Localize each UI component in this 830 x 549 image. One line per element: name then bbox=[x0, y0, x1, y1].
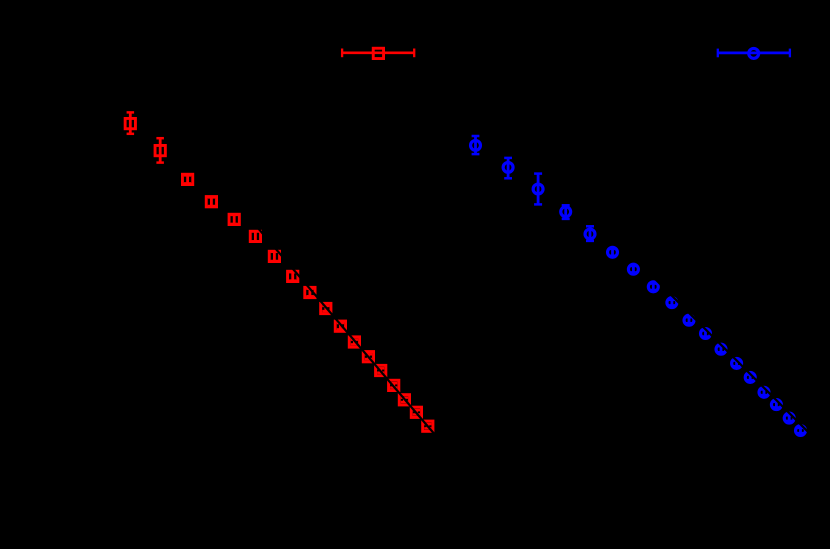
blue point 9 error bar bbox=[668, 299, 675, 307]
red point 7 square marker bbox=[269, 251, 279, 261]
red point 13 square marker bbox=[363, 352, 373, 362]
red point 17 error bar bbox=[413, 409, 420, 415]
blue point 15 error bar bbox=[761, 389, 768, 397]
red point 12 square marker bbox=[349, 337, 359, 347]
blue point 9 circle marker bbox=[667, 298, 677, 308]
blue series legend: circle marker bbox=[749, 48, 759, 58]
red point 2 error bar bbox=[156, 138, 164, 162]
blue point 8 circle marker bbox=[648, 282, 658, 292]
red point 12 error bar bbox=[351, 339, 358, 346]
black fit line over blue series bbox=[655, 279, 812, 436]
red point 5 square marker bbox=[229, 214, 239, 224]
blue point 15 circle marker bbox=[759, 387, 769, 397]
red point 1 square marker bbox=[125, 118, 135, 128]
red point 17 square marker bbox=[411, 407, 421, 417]
red point 18 square marker bbox=[423, 421, 433, 431]
red point 6 square marker bbox=[250, 231, 260, 241]
red point 9 square marker bbox=[305, 287, 315, 297]
blue point 5 error bar bbox=[586, 226, 594, 241]
blue point 13 circle marker bbox=[732, 358, 742, 368]
red point 1 error bar bbox=[127, 112, 135, 133]
blue point 3 error bar bbox=[534, 174, 542, 205]
red point 14 square marker bbox=[376, 365, 386, 375]
blue point 17 error bar bbox=[786, 414, 793, 422]
blue point 6 circle marker bbox=[608, 247, 618, 257]
blue point 18 circle marker bbox=[796, 426, 806, 436]
black fit line over red series bbox=[247, 215, 436, 436]
blue point 1 error bar bbox=[472, 136, 480, 154]
red point 15 error bar bbox=[390, 382, 397, 388]
red point 2 square marker bbox=[155, 145, 165, 155]
red point 3 error bar bbox=[184, 174, 191, 184]
red point 4 error bar bbox=[208, 196, 215, 207]
blue point 16 error bar bbox=[773, 401, 780, 409]
red point 8 error bar bbox=[289, 271, 296, 281]
blue point 10 error bar bbox=[686, 316, 693, 324]
red point 11 error bar bbox=[337, 322, 344, 330]
red point 10 square marker bbox=[321, 303, 331, 313]
blue point 17 circle marker bbox=[784, 413, 794, 423]
red point 4 square marker bbox=[206, 197, 216, 207]
red point 6 error bar bbox=[252, 230, 259, 242]
red point 11 square marker bbox=[335, 321, 345, 331]
blue point 16 circle marker bbox=[771, 400, 781, 410]
red point 3 square marker bbox=[182, 174, 192, 184]
blue point 2 error bar bbox=[504, 158, 512, 178]
red point 14 error bar bbox=[377, 367, 384, 373]
red point 7 error bar bbox=[271, 251, 278, 262]
blue point 14 circle marker bbox=[745, 372, 755, 382]
red series legend: square marker bbox=[373, 48, 383, 58]
red point 10 error bar bbox=[322, 305, 329, 312]
blue point 4 circle marker bbox=[561, 207, 571, 217]
blue point 18 error bar bbox=[797, 427, 804, 434]
red point 9 error bar bbox=[306, 288, 313, 298]
blue point 1 circle marker bbox=[471, 140, 481, 150]
blue series legend: horizontal error bar bbox=[718, 49, 790, 58]
blue point 5 circle marker bbox=[585, 229, 595, 239]
blue point 12 circle marker bbox=[716, 344, 726, 354]
red point 8 square marker bbox=[288, 271, 298, 281]
red point 18 error bar bbox=[424, 423, 431, 429]
blue point 11 circle marker bbox=[701, 329, 711, 339]
red point 16 error bar bbox=[401, 397, 408, 403]
blue point 8 error bar bbox=[650, 283, 657, 291]
blue point 11 error bar bbox=[702, 330, 709, 338]
blue point 10 circle marker bbox=[684, 315, 694, 325]
red point 15 square marker bbox=[389, 380, 399, 390]
red point 5 error bar bbox=[231, 214, 238, 225]
blue point 7 error bar bbox=[630, 265, 637, 273]
red series legend: horizontal error bar bbox=[342, 49, 414, 58]
blue point 12 error bar bbox=[718, 345, 725, 353]
blue point 6 error bar bbox=[609, 248, 616, 257]
blue point 14 error bar bbox=[747, 374, 754, 382]
blue point 3 circle marker bbox=[533, 184, 543, 194]
blue point 2 circle marker bbox=[503, 162, 513, 172]
blue point 7 circle marker bbox=[628, 264, 638, 274]
red point 16 square marker bbox=[399, 395, 409, 405]
blue point 4 error bar bbox=[562, 205, 570, 219]
blue point 13 error bar bbox=[733, 360, 740, 368]
red point 13 error bar bbox=[365, 353, 372, 360]
